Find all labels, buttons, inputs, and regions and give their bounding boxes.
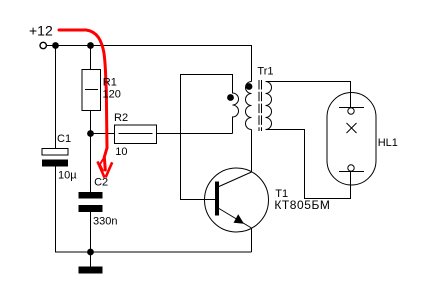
svg-text:10µ: 10µ bbox=[58, 170, 77, 182]
svg-text:HL1: HL1 bbox=[378, 137, 398, 149]
svg-text:C2: C2 bbox=[94, 177, 108, 189]
svg-text:C1: C1 bbox=[57, 133, 71, 145]
svg-text:+12: +12 bbox=[29, 23, 53, 39]
svg-text:R2: R2 bbox=[114, 112, 128, 124]
svg-text:R1: R1 bbox=[103, 77, 117, 89]
svg-text:КТ805БМ: КТ805БМ bbox=[274, 198, 330, 212]
svg-text:10: 10 bbox=[115, 146, 127, 158]
svg-text:330n: 330n bbox=[93, 216, 117, 228]
svg-text:120: 120 bbox=[103, 88, 121, 100]
svg-text:Tr1: Tr1 bbox=[257, 66, 273, 78]
